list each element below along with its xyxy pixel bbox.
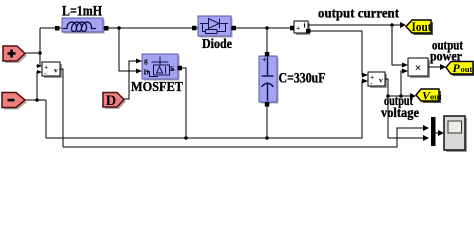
wire from minus port — [25, 99, 46, 101]
capacitor C1 shadow — [261, 58, 279, 104]
svg-text:MOSFET: MOSFET — [131, 80, 184, 95]
port D input shadow — [105, 95, 126, 110]
goto tag Pout — [446, 62, 473, 75]
diode icon — [200, 19, 228, 34]
mosfet icon — [146, 57, 175, 77]
node A junction on rail — [117, 26, 121, 30]
diode D1 shadow — [200, 18, 233, 38]
product block — [408, 58, 428, 76]
svg-text:power: power — [430, 49, 462, 64]
wire v2 to Vout tag — [388, 95, 411, 97]
arrow into scope — [438, 130, 444, 136]
inductor coil icon — [63, 22, 96, 31]
capacitor C1 — [259, 56, 277, 102]
node capacitor top on rail — [265, 26, 269, 30]
wire v2 to mux bottom — [388, 137, 424, 139]
goto tag Vout — [416, 89, 439, 101]
arrow into v2 minus — [362, 79, 368, 84]
arrow into Vout — [410, 93, 416, 99]
voltage measurement V2 shadow — [370, 74, 387, 88]
ground bus — [46, 81, 364, 138]
inductor left port — [55, 26, 60, 31]
node i branch — [390, 23, 394, 27]
svg-text:C=330uF: C=330uF — [279, 71, 326, 87]
wire D port to mosfet gate — [124, 61, 136, 99]
wire left vertical from rail to v1 plus input — [36, 28, 40, 66]
wire top rail diode to current measurement — [231, 27, 294, 29]
node mosfet source on bus — [184, 136, 188, 140]
arrow into product bottom — [402, 69, 408, 74]
svg-text:×: × — [415, 61, 422, 75]
svg-text:v: v — [379, 76, 383, 85]
wire mosfet source down to ground bus — [182, 68, 186, 138]
wire node A down to mosfet drain — [119, 28, 136, 71]
svg-text:i: i — [304, 21, 306, 30]
I1 right port — [306, 29, 311, 34]
wire v2 output down — [385, 79, 388, 138]
svg-text:+: + — [296, 24, 300, 33]
wire minus down to ground bus — [45, 100, 47, 138]
voltage measurement V1 — [42, 62, 60, 76]
goto tag Iout shadow — [408, 22, 433, 35]
wire power branch up to product bottom — [401, 71, 403, 96]
arrow into Iout — [400, 22, 406, 28]
V1 input arrows — [37, 64, 42, 68]
diode right port — [232, 26, 237, 31]
scope screen — [448, 121, 462, 133]
arrow into mosfet d — [136, 69, 142, 74]
svg-text:L=1mH: L=1mH — [62, 4, 102, 20]
goto tag Vout shadow — [418, 91, 441, 103]
mosfet Q1 shadow — [144, 56, 180, 81]
arrow into Pout — [440, 64, 446, 70]
scope block — [444, 116, 465, 150]
inductor L1 shadow — [64, 20, 105, 34]
svg-text:Diode: Diode — [202, 37, 232, 52]
voltage measurement V2 — [368, 72, 385, 86]
arrow into mosfet g — [136, 59, 142, 64]
node capacitor bottom on bus — [265, 136, 269, 140]
port + input shadow — [5, 48, 27, 63]
voltage measurement V1 shadow — [44, 64, 62, 78]
svg-text:+: + — [262, 56, 267, 65]
wire current measurement i output to Iout — [308, 24, 401, 26]
signal bus input voltage to mux — [63, 128, 424, 147]
node power branch — [399, 94, 403, 98]
diode D1 — [198, 16, 231, 36]
wire product output to Pout — [428, 66, 441, 68]
svg-text:Iout: Iout — [412, 19, 433, 34]
diode left port — [192, 26, 197, 31]
I1 left port — [290, 26, 295, 31]
arrow into mux bottom — [423, 135, 429, 141]
node v2 branch Vout — [386, 94, 390, 98]
label - on port — [8, 99, 15, 102]
port - input — [2, 93, 25, 108]
mosfet Q1 — [142, 54, 178, 79]
wire top rail from + junction to inductor — [40, 27, 62, 29]
port - input shadow — [4, 95, 27, 110]
capacitor top port — [265, 52, 270, 57]
label + on port — [8, 50, 16, 58]
svg-text:g: g — [144, 56, 148, 65]
wire capacitor top — [266, 28, 268, 56]
wire i branch down to product — [392, 25, 403, 65]
current measurement I1 shadow — [296, 23, 310, 35]
wire mux output to scope — [435, 132, 439, 134]
port + input — [3, 46, 25, 61]
svg-text:out: out — [461, 64, 473, 74]
scope block shadow — [446, 118, 467, 152]
product block shadow — [410, 60, 430, 78]
capacitor icon — [262, 57, 274, 101]
wire from plus port — [25, 52, 40, 54]
svg-text:voltage: voltage — [381, 105, 419, 120]
svg-text:D: D — [106, 93, 116, 109]
capacitor bottom port — [265, 102, 270, 107]
mux block — [431, 117, 436, 146]
arrow into product top — [402, 63, 408, 68]
wire top rail inductor to diode — [103, 27, 198, 29]
inductor L1 — [62, 18, 103, 32]
svg-text:output current: output current — [318, 7, 399, 22]
goto tag Iout — [406, 20, 431, 33]
arrow into mux top — [423, 125, 429, 131]
svg-text:out: out — [430, 92, 442, 102]
wire capacitor bottom — [266, 102, 268, 138]
current measurement I1 — [294, 21, 308, 33]
node junction minus port — [35, 98, 39, 102]
inductor right port — [104, 26, 109, 31]
mosfet source port — [178, 66, 183, 71]
svg-text:S: S — [170, 64, 174, 73]
arrow into v2 plus — [362, 73, 368, 78]
port D input — [103, 93, 124, 108]
svg-text:v: v — [54, 66, 58, 75]
wire current measurement minus terminal to v2 plus — [308, 31, 364, 75]
goto tag Pout shadow — [448, 64, 474, 77]
node junction plus port — [38, 51, 42, 55]
svg-text:D: D — [144, 68, 150, 77]
wire v1 output down to signal bus — [60, 69, 63, 147]
wire minus to v1 minus input — [37, 72, 38, 100]
